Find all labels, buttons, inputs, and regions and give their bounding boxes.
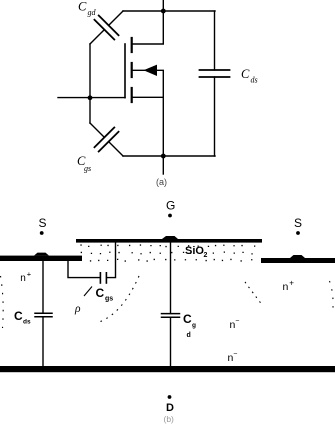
gate electrode bar: [76, 239, 262, 243]
gate contact bump: [162, 236, 178, 239]
wire drain stub: [132, 11, 163, 44]
svg-text:gd: gd: [88, 8, 97, 17]
svg-text:g: g: [192, 322, 196, 329]
depletion boundary left edge: [1, 276, 4, 328]
node drain junction: [161, 9, 166, 14]
wire gate vertical: [89, 44, 91, 123]
svg-text:D: D: [166, 402, 174, 414]
source contact bump left: [34, 253, 49, 256]
svg-text:G: G: [166, 199, 175, 213]
wire Cds bottom to source rail: [214, 77, 216, 156]
svg-text:−: −: [235, 318, 239, 325]
wire body stub: [132, 70, 163, 97]
capacitor Cgd wire lower: [170, 317, 172, 366]
capacitor Cgd plates: [162, 313, 180, 315]
svg-text:C: C: [241, 67, 250, 81]
source metal bar left: [0, 256, 82, 261]
SiO2 stipple dots: [79, 244, 255, 261]
svg-text:gs: gs: [84, 164, 91, 173]
wire top stub to drain terminal: [162, 0, 164, 11]
node S left dot: [40, 231, 44, 235]
svg-text:C: C: [78, 0, 87, 14]
capacitor Cgs (cross-section) wires: [68, 260, 100, 278]
svg-text:(b): (b): [164, 414, 175, 424]
svg-text:ρ: ρ: [74, 303, 81, 315]
wire bottom source rail: [123, 155, 215, 157]
transistor Q1 body arrow: [144, 65, 158, 76]
svg-text:ds: ds: [251, 76, 258, 85]
depletion boundary right edge: [330, 281, 334, 314]
svg-text:C: C: [96, 286, 105, 300]
capacitor Cgs (diagonal): [80, 113, 133, 166]
transistor Q1 channel segments: [131, 38, 133, 102]
svg-text:gs: gs: [105, 296, 113, 303]
svg-text:ds: ds: [23, 319, 31, 326]
capacitor Cgs plates: [99, 273, 101, 283]
node source junction: [161, 154, 166, 159]
svg-text:−: −: [233, 351, 237, 358]
source metal bar right: [261, 258, 335, 263]
source contact bump right: [290, 255, 305, 258]
capacitor Cds: [200, 70, 230, 77]
node S right dot: [296, 231, 300, 235]
capacitor Cds wire lower: [42, 317, 44, 366]
svg-text:2: 2: [204, 252, 208, 259]
capacitor Cds plates: [35, 312, 52, 314]
transistor Q1 gate bar: [124, 44, 126, 98]
svg-text:+: +: [27, 270, 32, 279]
svg-text:d: d: [187, 332, 191, 339]
depletion boundary left arc: [99, 276, 139, 322]
node G dot: [168, 214, 172, 218]
wire source stub: [132, 97, 163, 156]
wire top drain rail: [123, 10, 215, 12]
svg-text:S: S: [39, 216, 47, 230]
depletion boundary dash near Cgs: [84, 287, 92, 297]
capacitor Cds (cross-section) wire upper: [42, 261, 44, 313]
svg-text:n: n: [20, 273, 26, 284]
capacitor Cgd (diagonal): [80, 1, 133, 54]
node D dot: [168, 395, 172, 399]
svg-text:(a): (a): [156, 177, 167, 187]
wire gate terminal lead: [58, 97, 125, 99]
drain metal bar: [0, 366, 335, 372]
svg-text:S: S: [294, 216, 302, 230]
svg-text:C: C: [183, 312, 192, 326]
svg-text:C: C: [14, 309, 23, 323]
svg-text:SiO: SiO: [185, 245, 204, 257]
node gate junction: [88, 95, 93, 100]
wire right branch down to Cds: [214, 11, 216, 70]
svg-text:+: +: [289, 279, 294, 288]
depletion boundary right arc: [245, 282, 263, 306]
svg-text:n: n: [283, 281, 289, 293]
capacitor Cgd (cross-section) wire upper: [170, 242, 172, 313]
wire bottom stub to (a): [162, 156, 164, 174]
